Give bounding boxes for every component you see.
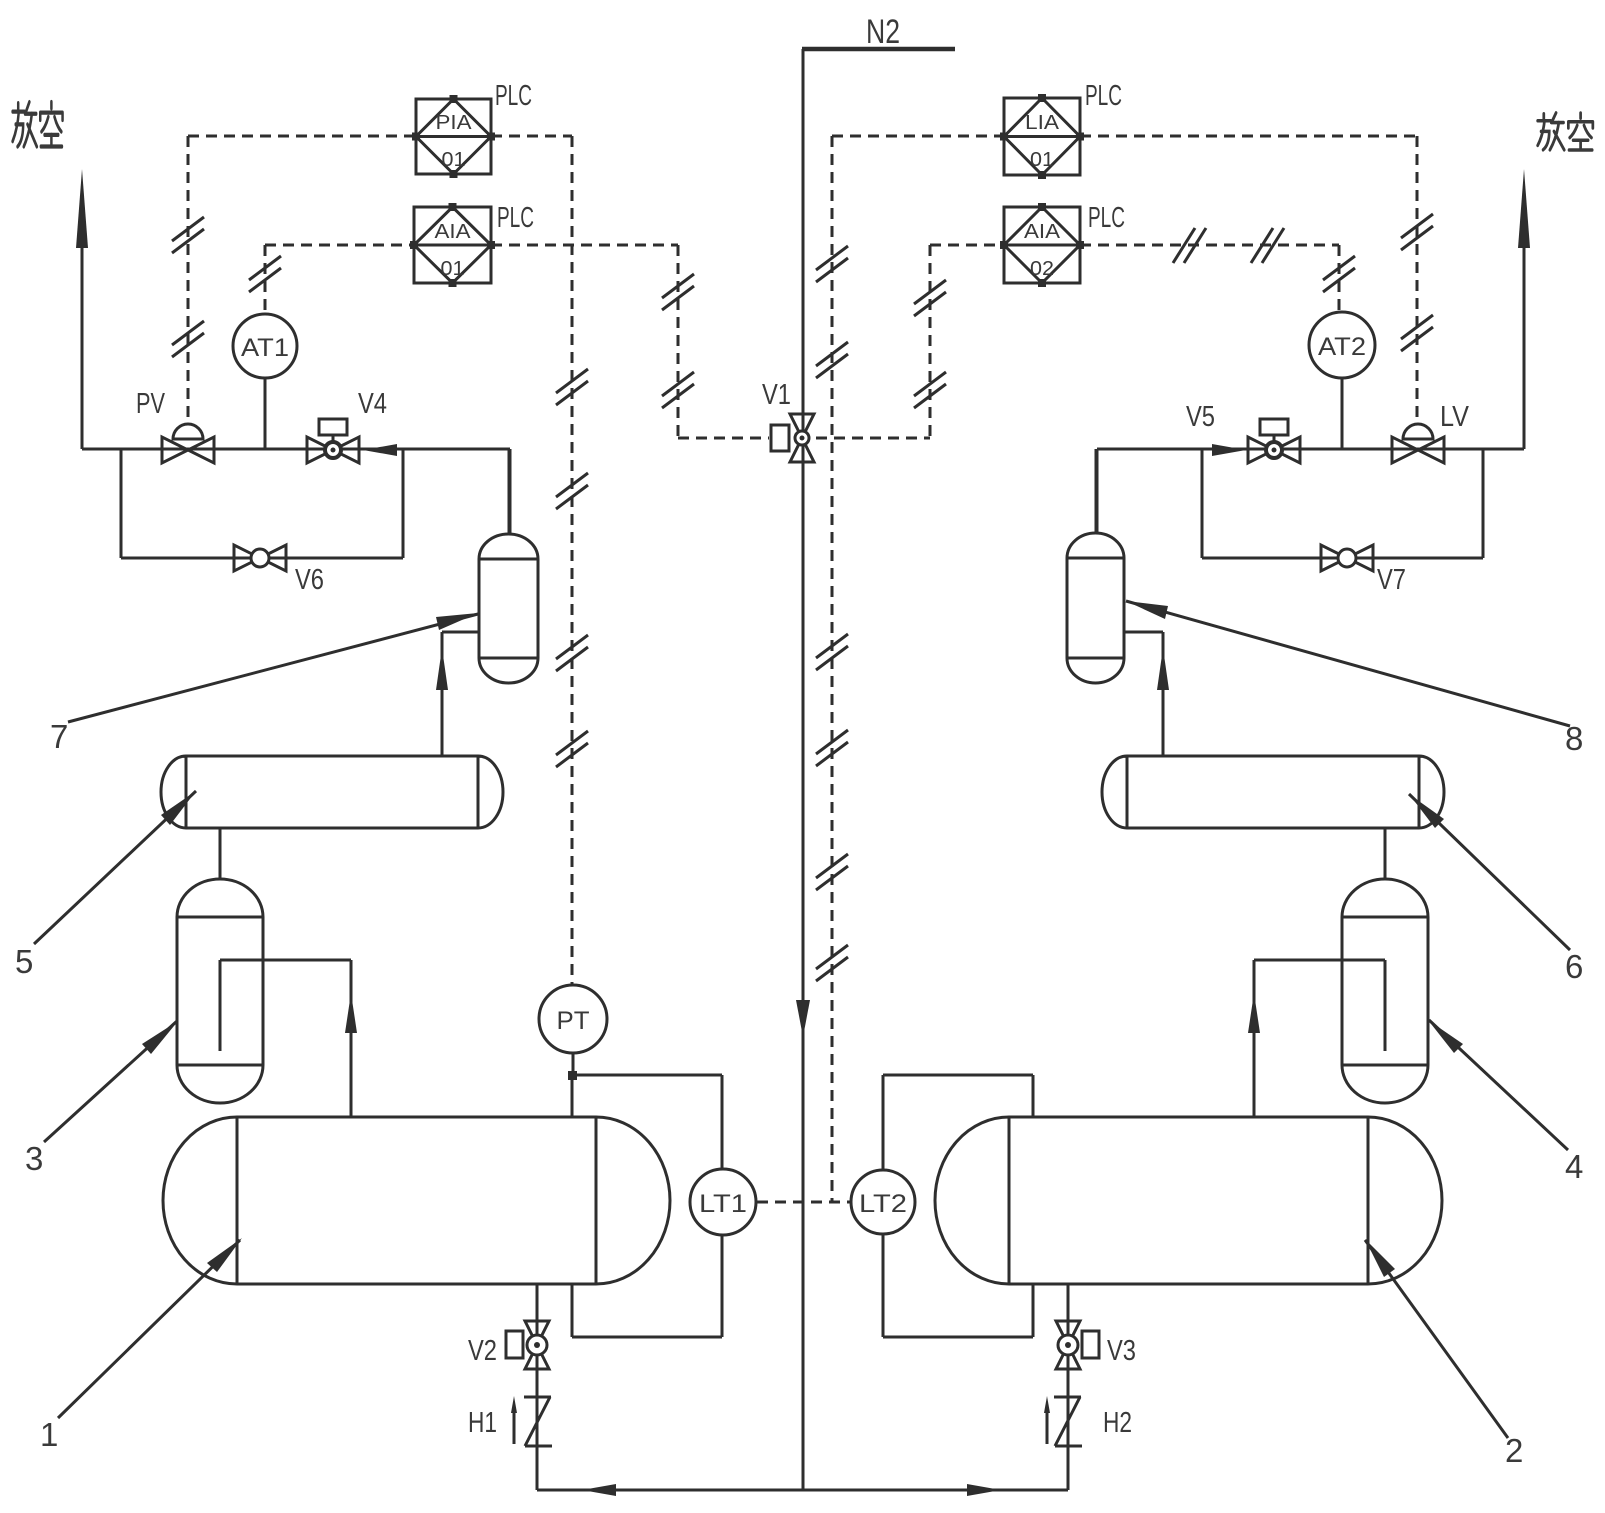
svg-text:V6: V6	[295, 564, 324, 596]
wire bottom distribution pipe right	[803, 1484, 1068, 1496]
svg-text:LV: LV	[1440, 401, 1470, 433]
wire tank1 standpipe loop with LT1	[568, 1053, 722, 1337]
PLC instrument box AIA 01	[410, 202, 534, 287]
instrument AT2	[1309, 312, 1375, 449]
wire dashed PV signal line	[172, 136, 416, 422]
svg-text:PLC: PLC	[1088, 202, 1125, 234]
wire dashed AIA02 to AT2 signal line	[1080, 228, 1355, 310]
svg-text:LT1: LT1	[699, 1190, 747, 1218]
instrument PT	[539, 985, 607, 1053]
svg-text:AT1: AT1	[241, 334, 289, 362]
svg-text:7: 7	[50, 718, 68, 755]
valve PV	[136, 388, 214, 463]
wire V6 bypass loop	[121, 449, 403, 558]
wire N2 center supply line	[796, 49, 810, 1490]
wire dashed V1 control line left branch	[491, 245, 769, 438]
svg-text:N2: N2	[866, 13, 900, 51]
svg-text:1: 1	[40, 1416, 58, 1453]
svg-text:PT: PT	[557, 1007, 590, 1035]
vent label left	[13, 102, 63, 147]
wire bottom distribution pipe left	[537, 1484, 803, 1496]
svg-text:AT2: AT2	[1318, 333, 1366, 361]
vessel 3 separator left	[177, 879, 263, 1103]
wire flow arrow into V5	[1212, 444, 1246, 456]
wire dashed V1 control line right branch	[816, 245, 1004, 438]
node label 6 leader	[1409, 794, 1583, 985]
svg-text:LT2: LT2	[859, 1190, 907, 1218]
svg-text:PLC: PLC	[495, 80, 532, 112]
valve V1	[762, 379, 814, 462]
wire dashed PIA to PT line	[491, 136, 588, 984]
svg-text:PV: PV	[136, 388, 165, 420]
svg-text:4: 4	[1565, 1148, 1583, 1185]
svg-text:AIA: AIA	[1024, 221, 1061, 243]
svg-text:01: 01	[441, 258, 465, 280]
wire cylinder6 bottom to vessel4	[1384, 828, 1387, 880]
wire dashed LV signal line	[1080, 136, 1433, 422]
wire dashed LT1 to LT2 link	[757, 1201, 850, 1204]
valve V3	[1056, 1321, 1136, 1369]
svg-text:02: 02	[1030, 258, 1054, 280]
wire vessel3 dip tube and tank1 riser	[220, 960, 357, 1117]
valve V2	[468, 1321, 549, 1369]
wire vessel7 top outlet	[508, 449, 511, 535]
wire dashed AT1 signal line	[249, 245, 414, 314]
PLC instrument box LIA 01	[1000, 80, 1122, 179]
valve LV	[1392, 401, 1470, 463]
wire vessel4 dip tube and tank2 riser	[1248, 960, 1385, 1117]
svg-text:PIA: PIA	[436, 112, 473, 134]
svg-text:6: 6	[1565, 948, 1583, 985]
cylinder 5 condenser left	[161, 756, 503, 828]
instrument AT1	[233, 314, 297, 449]
svg-text:01: 01	[1030, 149, 1054, 171]
valve V7	[1321, 545, 1406, 596]
node label 7 leader	[50, 613, 478, 755]
svg-text:V2: V2	[468, 1335, 497, 1367]
valve V4	[307, 388, 387, 463]
vessel 4 separator right	[1342, 879, 1428, 1103]
wire V7 bypass loop	[1202, 449, 1483, 558]
node label 8 leader	[1126, 601, 1583, 757]
vessel 1 tank left	[163, 1117, 670, 1284]
wire flow arrow into V4	[363, 444, 397, 456]
wire cylinder5 bottom to vessel3	[219, 828, 222, 880]
svg-text:PLC: PLC	[1085, 80, 1122, 112]
wire vessel8 top outlet	[1095, 449, 1098, 534]
vessel 8 buffer pot right	[1067, 533, 1124, 683]
node label 4 leader	[1428, 1020, 1583, 1185]
wire dashed LIA trunk line	[816, 136, 1004, 1201]
svg-text:V1: V1	[762, 379, 791, 411]
svg-text:V4: V4	[358, 388, 387, 420]
instrument LT1	[690, 1169, 756, 1235]
vent label right	[1538, 113, 1593, 150]
node N2 label	[866, 13, 900, 51]
svg-text:5: 5	[15, 943, 33, 980]
node label 2 leader	[1365, 1239, 1523, 1469]
svg-text:LIA: LIA	[1025, 112, 1060, 134]
wire cylinder5 to vessel7 riser	[436, 632, 479, 756]
svg-text:01: 01	[442, 149, 466, 171]
hand valve H2	[1044, 1396, 1132, 1446]
svg-text:PLC: PLC	[497, 202, 534, 234]
vessel 2 tank right	[935, 1117, 1442, 1284]
svg-text:H1: H1	[468, 1407, 497, 1439]
wire left vent header pipe	[82, 449, 510, 534]
node label 1 leader	[40, 1238, 242, 1453]
svg-text:V3: V3	[1107, 1335, 1136, 1367]
wire tank2 drain line	[1067, 1284, 1070, 1490]
node label 5 leader	[15, 791, 196, 980]
vent arrow right	[1518, 169, 1530, 449]
svg-text:V5: V5	[1186, 401, 1215, 433]
wire N2 header bar	[802, 47, 955, 52]
svg-text:3: 3	[25, 1140, 43, 1177]
wire cylinder6 to vessel8 riser	[1124, 632, 1169, 756]
svg-text:H2: H2	[1103, 1407, 1132, 1439]
PLC instrument box AIA 02	[1000, 202, 1125, 287]
instrument LT2	[851, 1170, 915, 1234]
valve V5	[1186, 401, 1300, 463]
wire tank2 standpipe loop with LT2	[883, 1075, 1033, 1337]
wire right vent header pipe	[1097, 449, 1524, 532]
wire tank1 drain line	[536, 1284, 539, 1490]
hand valve H1	[468, 1396, 552, 1446]
node label 3 leader	[25, 1021, 178, 1177]
PLC instrument box PIA 01	[412, 80, 532, 178]
vessel 7 buffer pot left	[479, 534, 538, 683]
vent arrow left	[76, 169, 88, 449]
svg-text:V7: V7	[1377, 564, 1406, 596]
svg-text:AIA: AIA	[435, 221, 472, 243]
cylinder 6 condenser right	[1102, 756, 1444, 828]
valve V6	[234, 545, 324, 596]
